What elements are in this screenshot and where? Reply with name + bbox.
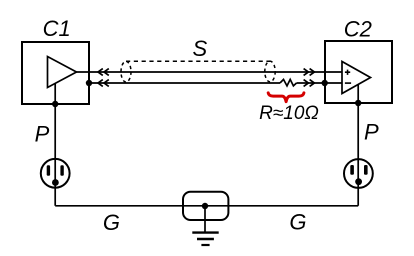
arrow chevrons right lower wire	[304, 80, 315, 87]
earth ground bar 2	[197, 238, 214, 240]
shield S top dashed line	[126, 60, 270, 62]
op-amp - input sign	[345, 82, 351, 84]
arrow chevrons left upper wire	[98, 69, 109, 76]
outlet P right ground pin dot	[355, 178, 362, 185]
svg-text:C1: C1	[43, 16, 71, 41]
outlet P left slot right	[60, 165, 63, 176]
svg-text:C2: C2	[344, 16, 372, 41]
arrow chevrons right upper wire	[304, 69, 315, 76]
earth ground bar 1	[192, 231, 218, 233]
svg-text:S: S	[192, 36, 207, 61]
shield S left dashed ellipse	[121, 61, 131, 82]
wire G bottom horizontal	[55, 205, 358, 207]
outlet P left circle	[41, 159, 70, 188]
svg-text:G: G	[103, 210, 120, 235]
svg-text:G: G	[289, 210, 306, 235]
red underbrace below resistor	[268, 93, 304, 102]
earth ground bar 3	[201, 244, 209, 246]
outlet P right slot left	[350, 165, 354, 175]
svg-text:P: P	[364, 120, 379, 145]
ground stem	[204, 206, 206, 232]
shield S right dashed ellipse	[265, 61, 275, 82]
wire lower return resistor to C2 - input	[297, 82, 343, 84]
chassis box C1	[22, 42, 89, 104]
op-amp + input sign	[345, 70, 350, 75]
wire lower return C1 chassis to resistor	[89, 82, 280, 84]
arrow chevrons left lower wire	[98, 80, 109, 87]
svg-text:P: P	[35, 122, 50, 147]
outlet P right slot right	[364, 165, 368, 175]
amplifier buffer triangle in C1	[48, 57, 77, 88]
outlet P left ground pin dot	[52, 179, 59, 186]
outlet P left slot left	[47, 165, 50, 176]
ground electrode rounded box	[183, 192, 228, 220]
resistor R zigzag on lower wire	[280, 79, 297, 86]
wire P right vertical from C2 internals down	[357, 84, 359, 205]
junction dot C1 bottom	[52, 101, 58, 107]
op-amp triangle in C2	[342, 62, 371, 94]
junction dot C1 right edge lower wire	[86, 80, 92, 86]
junction dot C2 bottom	[355, 100, 361, 106]
wire P left vertical from C1 internals down	[54, 83, 56, 205]
svg-text:R≈10Ω: R≈10Ω	[259, 103, 319, 124]
junction dot C2 left edge lower wire	[322, 80, 328, 86]
outlet P right circle	[344, 159, 373, 188]
chassis box C2	[325, 41, 392, 103]
junction dot ground box center	[202, 203, 208, 209]
wire upper signal C1 output to C2 + input	[77, 71, 343, 73]
